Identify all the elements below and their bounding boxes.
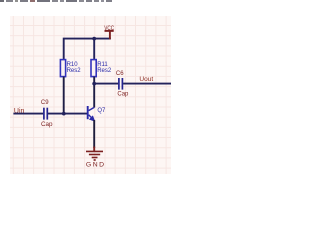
svg-text:R10: R10 — [67, 62, 79, 68]
wire: R11 top lead from top wire — [93, 39, 95, 60]
svg-text:Uout: Uout — [139, 76, 153, 83]
svg-text:Cap: Cap — [41, 121, 53, 128]
capacitor C6 — [116, 71, 129, 98]
svg-text:Cap: Cap — [117, 92, 129, 98]
svg-text:C9: C9 — [41, 100, 49, 106]
wire: C9 to Q7 base — [48, 113, 88, 115]
ground GND symbol — [86, 147, 106, 169]
resistor R10 — [60, 60, 81, 77]
wire: emitter down to ground — [93, 120, 95, 148]
svg-text:Q7: Q7 — [97, 108, 106, 114]
node junction where C6 taps collector line — [92, 82, 96, 86]
top tiny text strip — [0, 0, 4, 2]
wire: VCC rail top wire with corner down to R10 — [64, 39, 111, 60]
svg-text:R11: R11 — [97, 62, 108, 68]
schematic sheet grid — [10, 16, 171, 174]
wire: R10 bottom lead down to base wire — [63, 77, 65, 114]
resistor R11 — [91, 60, 112, 77]
wire: input wire to C9 — [13, 113, 43, 115]
svg-text:C6: C6 — [116, 71, 124, 77]
transistor Q7 — [88, 106, 106, 121]
svg-text:GND: GND — [86, 162, 106, 169]
svg-text:VCC: VCC — [104, 26, 114, 32]
power VCC symbol — [104, 26, 114, 39]
svg-text:Res2: Res2 — [97, 68, 112, 74]
svg-text:Res2: Res2 — [67, 68, 82, 74]
capacitor C9 — [41, 100, 53, 128]
wire: R11 bottom lead down to Q7 collector — [93, 77, 95, 108]
node junction on top wire above R11 — [92, 37, 96, 41]
node junction of R10 lead and base wire — [62, 112, 66, 116]
wire: from collector junction to C6 — [94, 83, 118, 85]
wire: C6 to output — [123, 83, 171, 85]
